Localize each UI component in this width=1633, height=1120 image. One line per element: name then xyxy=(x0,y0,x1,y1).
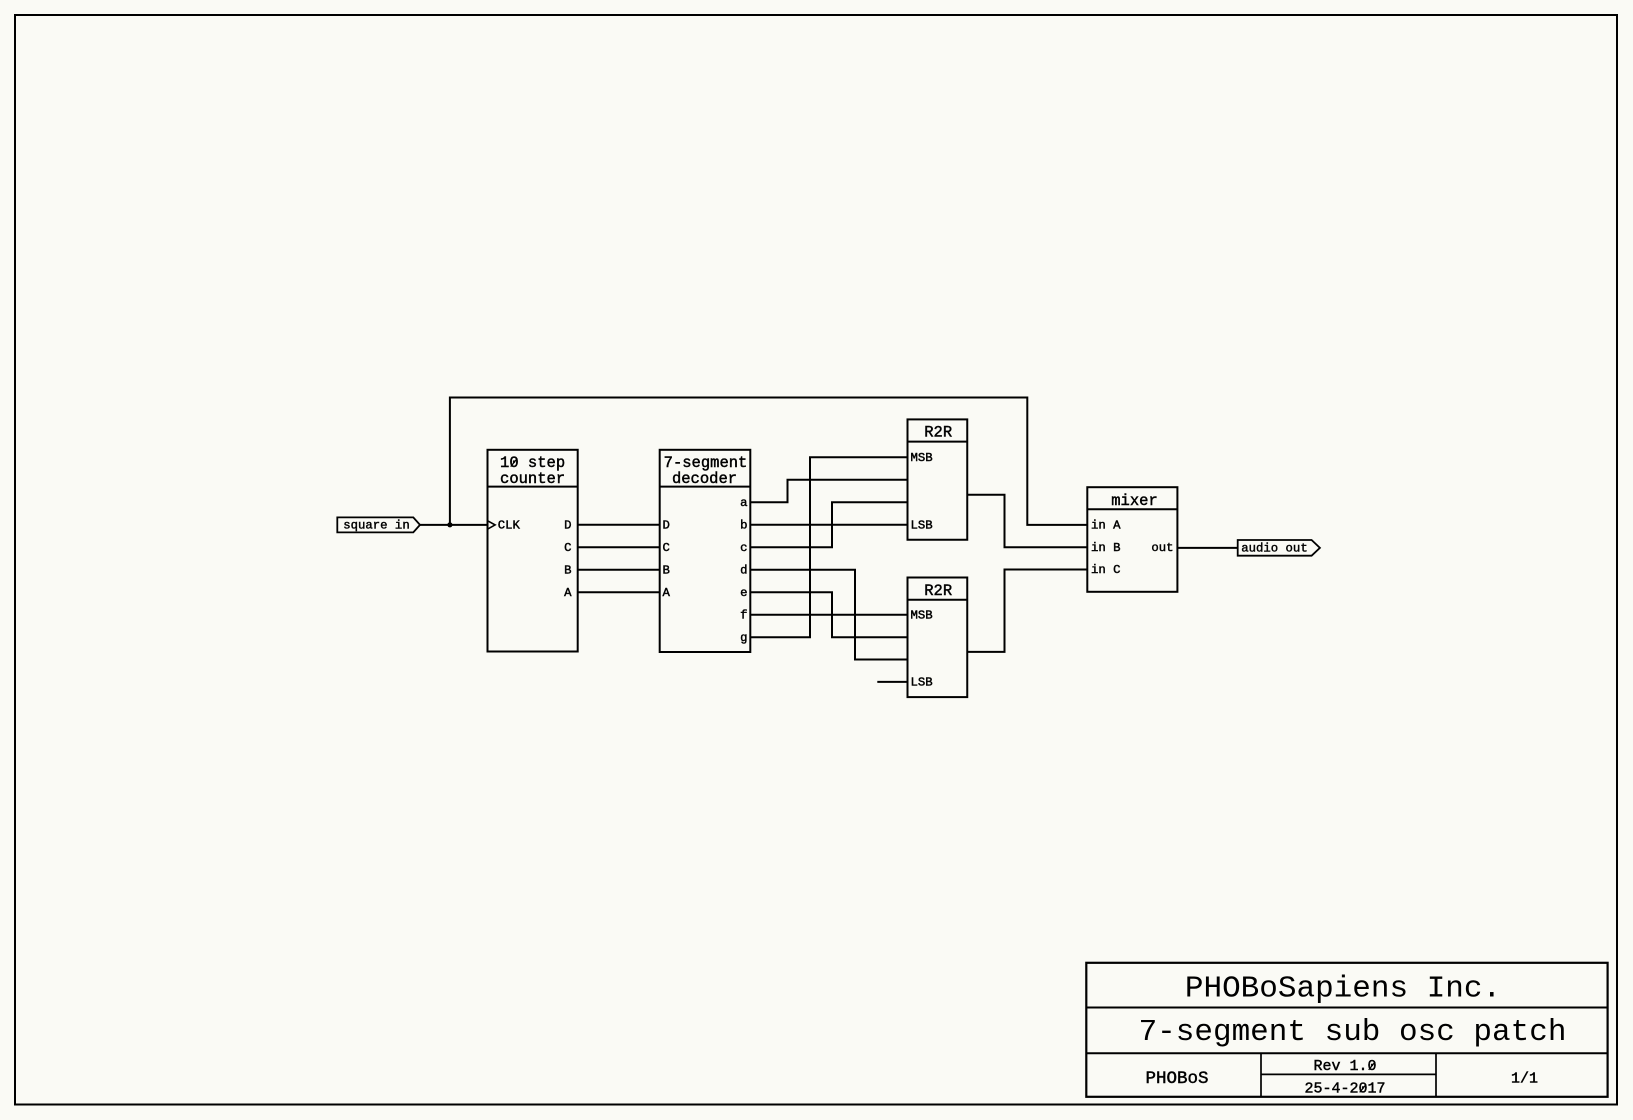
svg-text:b: b xyxy=(740,518,747,532)
svg-text:A: A xyxy=(663,586,671,600)
block mixer xyxy=(1087,487,1177,592)
svg-text:square in: square in xyxy=(343,519,409,533)
wire counter B to decoder B xyxy=(578,569,660,571)
svg-text:out: out xyxy=(1151,541,1173,555)
svg-text:R2R: R2R xyxy=(924,582,952,600)
wire decoder b to top R2R LSB xyxy=(750,524,907,526)
wire square in to CLK xyxy=(420,524,488,526)
wire feedback square in to mixer in A xyxy=(450,398,1087,525)
svg-text:C: C xyxy=(564,541,571,555)
svg-text:MSB: MSB xyxy=(911,451,933,465)
wire counter D to decoder D xyxy=(578,524,660,526)
svg-text:MSB: MSB xyxy=(911,608,933,622)
svg-text:D: D xyxy=(564,518,571,532)
svg-text:CLK: CLK xyxy=(498,518,521,532)
svg-text:B: B xyxy=(564,563,571,577)
wire decoder c to top R2R pin 3 xyxy=(750,502,907,547)
svg-text:25-4-2017: 25-4-2017 xyxy=(1304,1080,1385,1097)
wire counter A to decoder A xyxy=(578,591,660,593)
svg-text:counter: counter xyxy=(500,470,565,488)
wire decoder f to bottom R2R MSB xyxy=(750,614,907,616)
svg-text:d: d xyxy=(740,563,747,577)
svg-text:f: f xyxy=(740,608,747,622)
wire decoder d to bottom R2R pin 3 xyxy=(750,570,907,660)
wire decoder a to top R2R pin 2 xyxy=(750,480,907,503)
wire bottom R2R LSB stub xyxy=(877,681,907,683)
pin CLK (counter clock input) xyxy=(488,518,521,532)
block 10 step counter xyxy=(488,450,578,652)
svg-text:A: A xyxy=(564,586,572,600)
junction dot xyxy=(447,522,452,527)
wire bottom R2R out to mixer in C xyxy=(967,570,1087,652)
svg-text:in A: in A xyxy=(1091,518,1121,532)
block 7-segment decoder xyxy=(660,450,751,652)
svg-text:Rev 1.0: Rev 1.0 xyxy=(1313,1058,1376,1075)
wire counter C to decoder C xyxy=(578,546,660,548)
svg-text:LSB: LSB xyxy=(911,675,933,689)
block R2R DAC (bottom) xyxy=(908,578,968,698)
svg-text:audio out: audio out xyxy=(1241,541,1307,555)
svg-text:e: e xyxy=(740,586,747,600)
svg-text:g: g xyxy=(740,631,747,645)
svg-text:C: C xyxy=(663,541,670,555)
svg-text:D: D xyxy=(663,518,670,532)
svg-text:B: B xyxy=(663,563,670,577)
svg-text:LSB: LSB xyxy=(911,518,933,532)
svg-text:1/1: 1/1 xyxy=(1511,1071,1538,1088)
svg-text:PHOBoSapiens Inc.: PHOBoSapiens Inc. xyxy=(1185,971,1501,1006)
input flag square in xyxy=(337,517,420,532)
svg-text:a: a xyxy=(740,496,747,510)
svg-text:mixer: mixer xyxy=(1111,492,1158,510)
svg-text:c: c xyxy=(740,541,747,555)
svg-text:PHOBoS: PHOBoS xyxy=(1145,1069,1208,1089)
svg-text:R2R: R2R xyxy=(924,424,952,442)
wire decoder e to bottom R2R pin 2 xyxy=(750,592,907,637)
output flag audio out xyxy=(1238,540,1320,556)
svg-text:in C: in C xyxy=(1091,563,1121,577)
wire top R2R out to mixer in B xyxy=(967,495,1087,548)
wire mixer out to audio out flag xyxy=(1177,547,1237,549)
block R2R DAC (top) xyxy=(908,419,968,539)
svg-text:decoder: decoder xyxy=(672,470,737,488)
wire decoder g to top R2R MSB xyxy=(750,457,907,637)
svg-text:7-segment sub osc patch: 7-segment sub osc patch xyxy=(1139,1015,1567,1050)
title block xyxy=(1086,963,1607,1097)
svg-text:in B: in B xyxy=(1091,541,1121,555)
